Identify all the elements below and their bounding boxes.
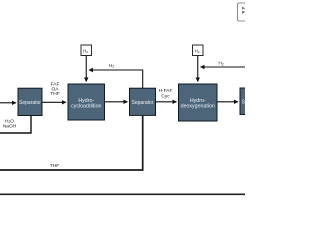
node label H2 recycle left: [109, 63, 114, 69]
wire H2 box 1 down into hydro-cycloaddition: [85, 56, 87, 82]
node label H-FAF Cyc: [159, 88, 173, 100]
reactor hydro-cycloaddition: [68, 84, 105, 120]
wire hydro-deoxygenation to separator 3: [217, 101, 238, 103]
separator S2: [130, 88, 156, 115]
svg-text:H-FAF: H-FAF: [159, 88, 173, 94]
H2 feed box 1: [81, 45, 92, 56]
svg-text:Separator: Separator: [19, 100, 41, 106]
H2 feed box 2: [193, 45, 204, 56]
node label THF: [50, 163, 59, 169]
node label FAF OA THF: [50, 82, 59, 98]
svg-text:Separator: Separator: [132, 100, 154, 106]
svg-text:Pr: Pr: [242, 10, 245, 15]
separator S3 (cut off at right edge): [240, 88, 265, 115]
wire hydro-cycloaddition to separator 2: [105, 101, 128, 103]
reactor hydro-deoxygenation: [179, 84, 218, 121]
wire H2 box 2 down into hydro-deoxygenation: [197, 56, 199, 82]
svg-text:NaOH: NaOH: [3, 123, 17, 129]
wire separator 1 to hydro-cycloaddition: [42, 101, 66, 103]
wire H2O NaOH outlet from separator 1 bottom: [0, 115, 31, 133]
svg-text:Separator: Separator: [242, 99, 245, 105]
svg-text:OA: OA: [52, 86, 60, 92]
bottom border line: [0, 193, 245, 196]
node label H2 recycle right: [218, 61, 223, 67]
wire THF recycle from separator 2 bottom: [0, 115, 143, 170]
wire H2 recycle from right edge: [201, 66, 246, 68]
svg-text:THF: THF: [50, 91, 59, 97]
svg-text:deoxygenation: deoxygenation: [181, 103, 215, 109]
svg-text:Cyc: Cyc: [161, 94, 170, 100]
separator S1: [18, 88, 42, 115]
legend box top right (cut off): [238, 3, 259, 21]
svg-text:cycloaddition: cycloaddition: [71, 103, 101, 109]
wire H2 recycle from separator 2 top: [89, 70, 143, 88]
svg-text:THF: THF: [50, 163, 59, 169]
wire separator 2 to hydro-deoxygenation: [156, 101, 177, 103]
node label H2O NaOH: [3, 118, 17, 129]
wire feed arrow into separator 1: [0, 102, 16, 104]
svg-text:FAF: FAF: [51, 82, 60, 88]
